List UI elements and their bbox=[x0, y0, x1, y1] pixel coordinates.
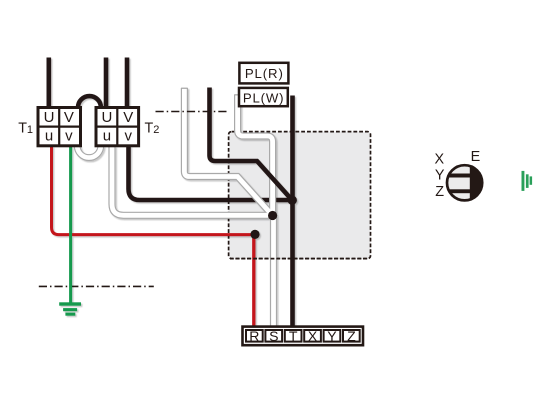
svg-text:T1: T1 bbox=[18, 120, 33, 136]
svg-text:E: E bbox=[471, 149, 481, 165]
svg-text:S: S bbox=[269, 328, 278, 344]
svg-text:u: u bbox=[103, 127, 111, 144]
svg-text:v: v bbox=[124, 127, 132, 144]
svg-text:R: R bbox=[249, 328, 259, 344]
svg-text:U: U bbox=[101, 109, 112, 126]
svg-text:V: V bbox=[123, 109, 133, 126]
svg-text:Z: Z bbox=[347, 328, 356, 344]
svg-text:u: u bbox=[45, 127, 53, 144]
svg-text:Z: Z bbox=[435, 184, 444, 200]
svg-text:Y: Y bbox=[435, 168, 445, 184]
svg-text:PL(R): PL(R) bbox=[245, 66, 284, 81]
svg-text:T: T bbox=[289, 328, 298, 344]
svg-text:X: X bbox=[434, 151, 444, 167]
svg-text:U: U bbox=[44, 109, 55, 126]
svg-text:v: v bbox=[65, 127, 73, 144]
svg-text:V: V bbox=[64, 109, 74, 126]
svg-text:Y: Y bbox=[327, 328, 337, 344]
svg-text:PL(W): PL(W) bbox=[243, 90, 284, 105]
svg-text:X: X bbox=[308, 328, 318, 344]
svg-text:T2: T2 bbox=[145, 120, 160, 136]
